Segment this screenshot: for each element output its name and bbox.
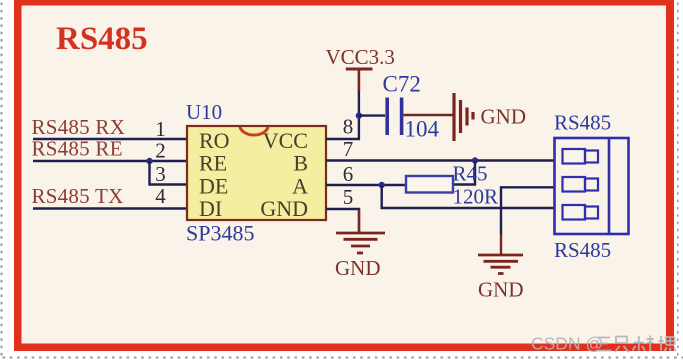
svg-text:RS485: RS485	[554, 111, 611, 135]
junction VCC / C72	[356, 112, 362, 118]
svg-text:C72: C72	[383, 72, 421, 97]
svg-text:7: 7	[343, 137, 354, 161]
svg-text:GND: GND	[260, 196, 308, 221]
svg-text:RS485 RX: RS485 RX	[32, 115, 126, 139]
wire net B	[326, 159, 555, 161]
svg-text:VCC3.3: VCC3.3	[326, 45, 395, 69]
junction B / R45	[472, 157, 478, 163]
wire junction to C72	[359, 114, 385, 116]
svg-text:CSDN @: CSDN @	[531, 334, 603, 354]
svg-text:GND: GND	[478, 278, 524, 302]
wire RS485_TX	[33, 207, 187, 209]
svg-text:3: 3	[155, 162, 166, 186]
svg-text:A: A	[292, 174, 308, 199]
wire RS485_RE	[33, 160, 187, 162]
svg-text:104: 104	[405, 117, 440, 142]
svg-text:GND: GND	[335, 256, 381, 280]
capacitor C72	[387, 98, 401, 136]
resistor R45	[406, 176, 453, 193]
connector RS485 (3-pin terminal)	[555, 138, 629, 234]
svg-text:VCC: VCC	[263, 128, 308, 153]
ground GND (bar style, right of C72)	[454, 93, 526, 141]
svg-text:4: 4	[155, 184, 166, 208]
wire R45 right lead	[453, 161, 475, 185]
svg-text:DI: DI	[199, 196, 222, 221]
svg-text:R45: R45	[453, 162, 488, 186]
svg-text:120R: 120R	[453, 185, 499, 209]
svg-text:RO: RO	[199, 128, 230, 153]
svg-text:RS485: RS485	[554, 238, 611, 262]
ground GND2 (below connector)	[478, 234, 524, 302]
svg-text:DE: DE	[199, 174, 228, 199]
IC U10 body	[187, 126, 326, 221]
wire net A	[326, 184, 406, 186]
wire RS485_RX	[33, 138, 187, 140]
power port VCC3.3	[326, 45, 395, 91]
svg-text:RS485 TX: RS485 TX	[32, 184, 124, 208]
svg-text:U10: U10	[186, 100, 222, 124]
svg-text:SP3485: SP3485	[186, 221, 254, 246]
svg-text:RS485: RS485	[56, 21, 148, 57]
svg-text:RE: RE	[199, 151, 227, 176]
svg-text:6: 6	[343, 162, 354, 186]
wire pin8 to VCC	[326, 90, 359, 139]
wire A to connector row3	[382, 185, 555, 208]
wire pin5 to ground	[326, 209, 359, 232]
svg-text:8: 8	[343, 115, 354, 139]
ground GND1 (below pin 5)	[335, 210, 385, 281]
svg-text:RS485 RE: RS485 RE	[32, 137, 123, 161]
svg-text:B: B	[293, 151, 308, 176]
junction RE	[146, 158, 152, 164]
svg-text:2: 2	[155, 139, 166, 163]
svg-text:5: 5	[343, 185, 354, 209]
wire C72 to GND bar	[403, 114, 452, 116]
junction A branch	[379, 182, 385, 188]
svg-text:1: 1	[155, 117, 166, 141]
wire connector GND (row2)	[501, 187, 555, 235]
svg-text:GND: GND	[481, 105, 527, 129]
wire RE to DE	[150, 161, 188, 185]
